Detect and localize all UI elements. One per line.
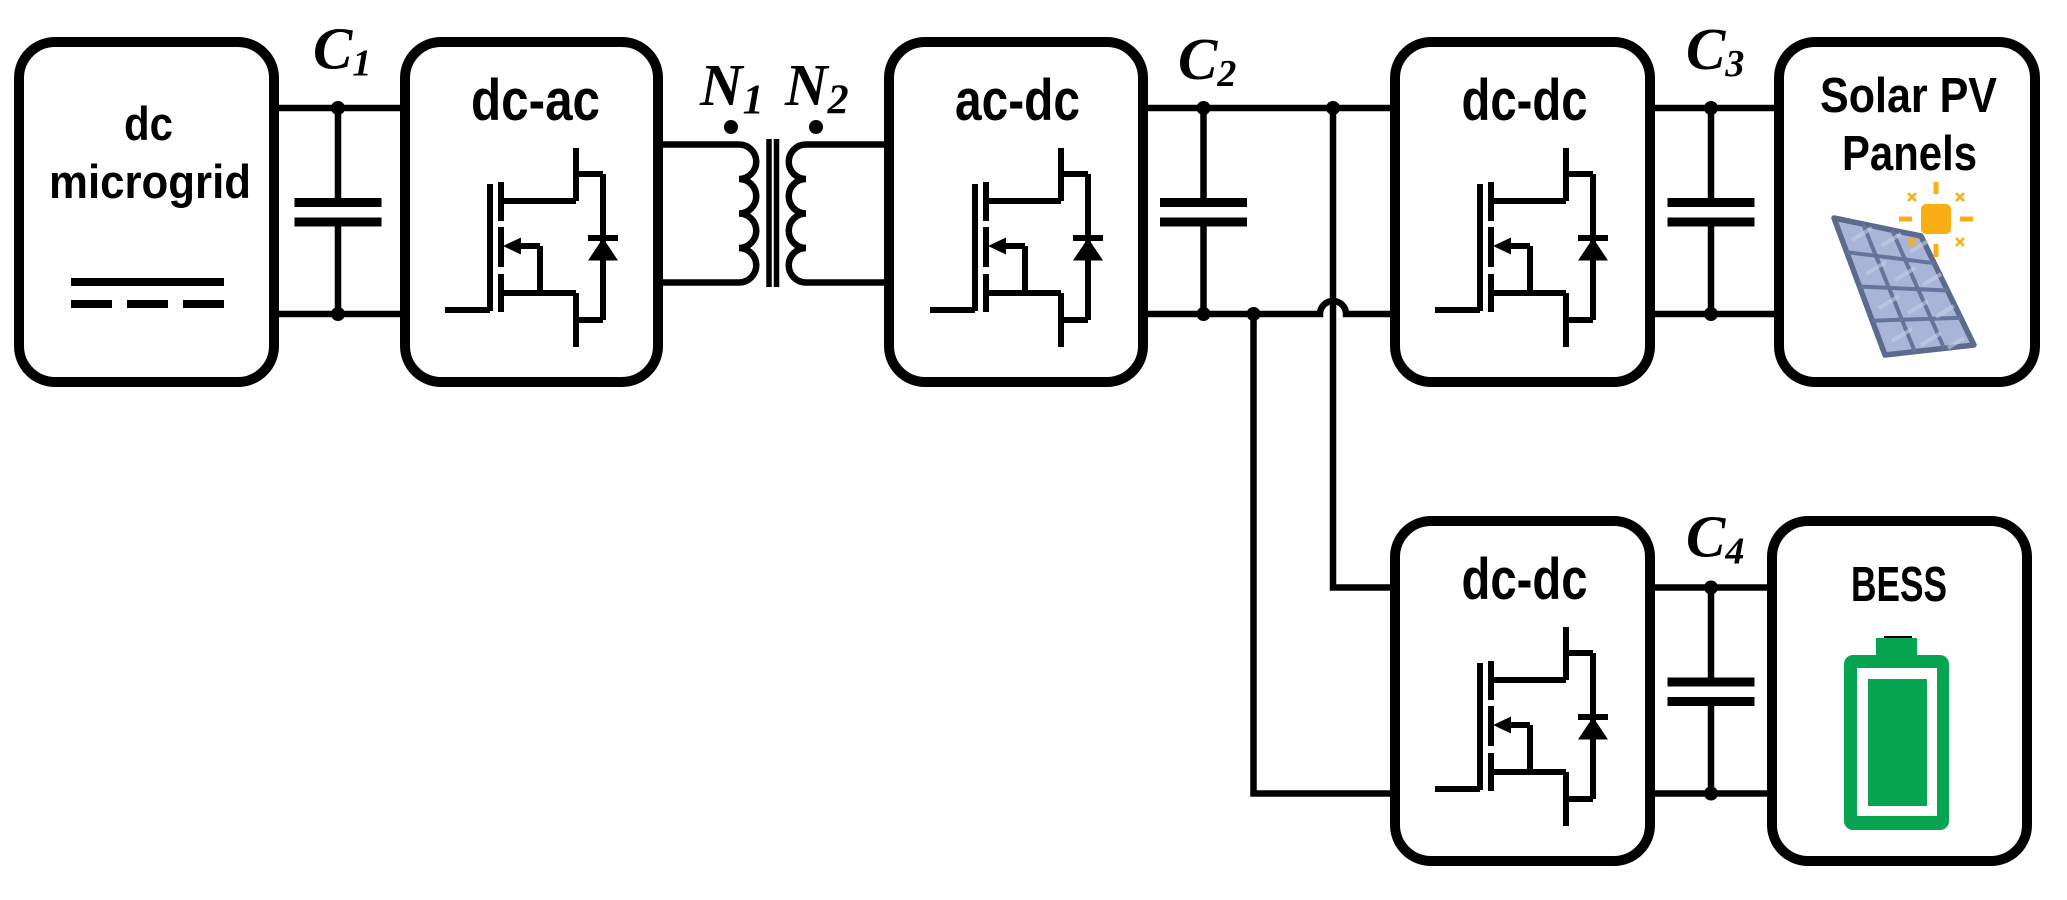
transformer primary top lead [663, 141, 739, 148]
capacitor C2 [1160, 108, 1247, 314]
transformer secondary bottom lead [806, 279, 884, 286]
junction dot C1 top [331, 101, 345, 115]
transformer core [769, 139, 777, 287]
MOSFET Q1 inside dc-ac [445, 148, 618, 347]
svg-text:Solar PV: Solar PV [1820, 69, 1997, 123]
box dc-dc converter (bottom) [1395, 521, 1650, 861]
MOSFET Q4 inside bottom dc-dc [1435, 627, 1608, 826]
box dc-ac converter [405, 42, 658, 382]
label dc-dc bottom [1462, 547, 1588, 612]
label N2 [784, 52, 849, 124]
wire bottom bus: dc-dc to Solar PV [1655, 311, 1774, 318]
transformer primary bottom lead [663, 279, 739, 286]
wire bottom: bottom dc-dc to BESS [1655, 790, 1767, 797]
polarity dot N2 [809, 120, 823, 134]
label BESS [1851, 558, 1947, 612]
box dc microgrid [19, 42, 274, 382]
polarity dot N1 [724, 120, 738, 134]
label C2 [1178, 26, 1236, 95]
label N1 [699, 52, 764, 124]
junction dot C3 bottom [1704, 307, 1718, 321]
label dc microgrid [49, 97, 251, 208]
wire top bus: ac-dc to dc-dc [1148, 105, 1390, 112]
solar panel icon [1834, 218, 1974, 355]
svg-text:BESS: BESS [1851, 558, 1947, 612]
box BESS [1772, 521, 2027, 861]
wire B: top bus down to bottom dc-dc upper input [1333, 108, 1390, 588]
label dc-ac [471, 68, 600, 133]
sun icon [1899, 182, 1973, 257]
svg-text:Panels: Panels [1842, 127, 1977, 181]
junction dot wire B at top bus [1326, 101, 1340, 115]
label C1 [313, 16, 371, 85]
junction dot wire A at bottom bus [1247, 307, 1261, 321]
junction dot C4 bottom [1704, 787, 1718, 801]
label C4 [1686, 504, 1744, 573]
wire top bus: dc-dc to Solar PV [1655, 105, 1774, 112]
svg-text:dc-dc: dc-dc [1462, 68, 1588, 133]
MOSFET Q3 inside top dc-dc [1435, 148, 1608, 347]
box Solar PV Panels [1779, 42, 2035, 382]
svg-text:microgrid: microgrid [49, 155, 251, 208]
MOSFET Q2 inside ac-dc [930, 148, 1103, 347]
capacitor C1 [295, 108, 382, 314]
dc symbol (solid over dashed line) [71, 282, 224, 304]
wire top bus: dc microgrid to dc-ac [279, 105, 400, 112]
label dc-dc top [1462, 68, 1588, 133]
junction dot C2 top [1197, 101, 1211, 115]
label ac-dc [955, 68, 1080, 133]
battery icon [1844, 638, 1949, 830]
capacitor C3 [1668, 108, 1755, 314]
label C3 [1686, 16, 1744, 85]
wire top: bottom dc-dc to BESS [1655, 584, 1767, 591]
wire bottom bus: dc microgrid to dc-ac [279, 311, 400, 318]
svg-text:ac-dc: ac-dc [955, 68, 1080, 133]
transformer T1 primary winding N1 [739, 145, 756, 283]
label Solar PV Panels [1820, 69, 1997, 181]
transformer secondary top lead [806, 141, 884, 148]
wire A: bottom bus down to bottom dc-dc lower input [1254, 314, 1391, 794]
svg-text:dc-ac: dc-ac [471, 68, 600, 133]
box dc-dc converter (top) [1395, 42, 1650, 382]
junction dot C3 top [1704, 101, 1718, 115]
transformer T1 secondary winding N2 [789, 145, 806, 283]
box ac-dc converter [889, 42, 1143, 382]
wire bottom bus: ac-dc to dc-dc with hop over wire B [1148, 301, 1390, 314]
svg-text:dc-dc: dc-dc [1462, 547, 1588, 612]
junction dot C1 bottom [331, 307, 345, 321]
capacitor C4 [1668, 588, 1755, 794]
junction dot C2 bottom [1197, 307, 1211, 321]
junction dot C4 top [1704, 581, 1718, 595]
svg-text:dc: dc [124, 97, 173, 150]
